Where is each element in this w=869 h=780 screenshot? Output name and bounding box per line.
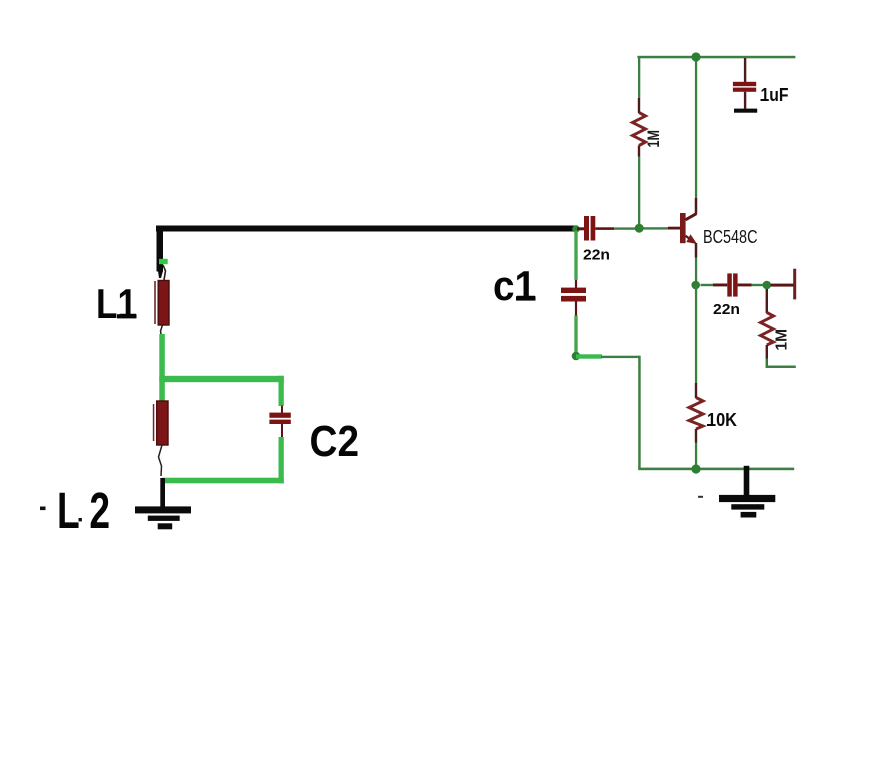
svg-text:1uF: 1uF: [761, 85, 789, 105]
wire: bright green top horizontal of C2 loop: [159, 376, 283, 382]
resistor R2 1M (emitter load): [761, 289, 774, 359]
wire: scratchy lead below L1: [161, 325, 163, 337]
wire: bright green stub right of c1 bottom node: [576, 354, 602, 358]
svg-text:22n: 22n: [583, 247, 610, 264]
wire: dark green vertical corner down: [638, 356, 641, 469]
capacitor C3 22n (input coupling): [577, 216, 637, 241]
label 1uF: [761, 85, 789, 105]
inductor L1: [154, 281, 169, 326]
wire: emitter green from node down to 10K: [695, 285, 697, 383]
wire: bright green right vertical (bottom) of C2 loop: [279, 437, 284, 483]
wire: base wire from node to transistor: [643, 227, 681, 230]
capacitor C2: [269, 406, 290, 438]
wire: green tick above L1: [159, 259, 168, 264]
wire: green from 1M down to base node: [638, 157, 640, 229]
resistor R1 1M (top bias): [633, 98, 646, 157]
transistor Q1 BC548C: [680, 198, 697, 258]
node: emitter junction: [691, 281, 700, 290]
node: base junction: [635, 224, 644, 233]
label L 2: [40, 482, 110, 539]
wire: green from 10K to bottom rail: [695, 443, 697, 469]
svg-text:L1: L1: [96, 280, 137, 327]
svg-text:1M: 1M: [774, 329, 791, 351]
node: bottom rail junction: [691, 464, 700, 473]
resistor R3 10K: [689, 383, 703, 443]
wire: black input wire from antenna node to c1 node: [156, 226, 576, 279]
svg-text:L 2: L 2: [57, 482, 110, 539]
wire: bright green vertical from L1 bottom to L2 top: [159, 334, 165, 401]
ground (left): [135, 506, 191, 529]
wire: top supply rail: [637, 56, 795, 59]
wire: bright green bottom horizontal of C2 loop: [162, 478, 284, 484]
svg-text:c1: c1: [493, 262, 536, 309]
wire: scratchy lead from black wire into L1 top: [163, 265, 166, 280]
wire: black stub from L2 node down to ground: [160, 478, 165, 511]
wire: collector vertical green (top rail to transistor): [695, 56, 697, 198]
inductor L2: [153, 401, 168, 445]
svg-text:BC548C: BC548C: [703, 226, 758, 247]
svg-text:22n: 22n: [713, 301, 740, 318]
stray mark near right ground: [698, 496, 703, 498]
wire: bright green right vertical (top) of C2 loop: [279, 376, 284, 406]
svg-text:10K: 10K: [707, 409, 738, 430]
node: c1 top junction (black wire / 22n / c1): [572, 225, 580, 233]
node: c1 bottom junction: [572, 352, 581, 361]
wire: output lead to edge connector: [771, 269, 797, 300]
node: output junction: [763, 281, 772, 290]
wire: dark green bottom rail: [638, 468, 794, 471]
wire: dark green from c1 node to corner: [601, 356, 640, 358]
svg-text:C2: C2: [310, 417, 360, 466]
wire: emitter green down to 22n node: [695, 258, 697, 285]
node: top rail junction: [691, 52, 700, 61]
svg-text:1M: 1M: [645, 130, 663, 148]
label c1: [493, 262, 536, 309]
label 10K: [707, 409, 738, 430]
ground (right): [719, 466, 775, 518]
wire: green corner below 1M going right: [766, 359, 796, 369]
capacitor C4 22n (output coupling): [701, 273, 764, 296]
capacitor c1 (to ground loop): [561, 231, 586, 354]
label L1: [96, 280, 137, 327]
capacitor C5 1uF (supply decoupling): [733, 58, 757, 113]
wire: left vertical from top rail to 1M: [638, 56, 640, 98]
wire: scratchy lead below L2 to ground node: [159, 445, 163, 476]
